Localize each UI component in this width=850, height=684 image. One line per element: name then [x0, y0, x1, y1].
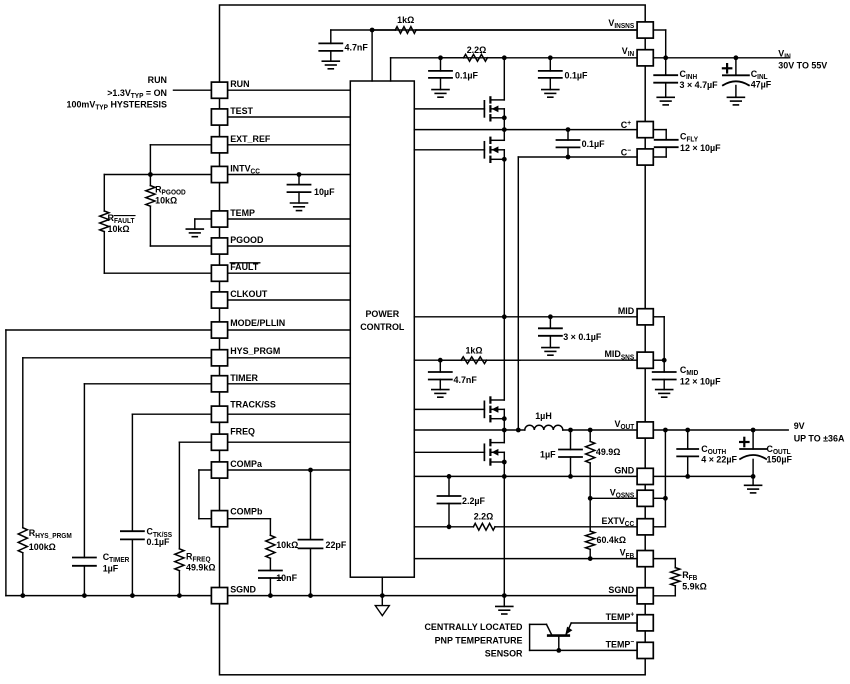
svg-text:0.1µF: 0.1µF: [582, 139, 605, 149]
svg-text:3 × 4.7µF: 3 × 4.7µF: [680, 80, 718, 90]
svg-text:POWER: POWER: [365, 309, 399, 319]
svg-text:0.1µF: 0.1µF: [455, 70, 478, 80]
svg-text:10kΩ: 10kΩ: [108, 224, 131, 234]
svg-text:FREQ: FREQ: [230, 426, 255, 436]
svg-text:12 × 10µF: 12 × 10µF: [680, 143, 721, 153]
svg-text:TEMP−: TEMP−: [606, 639, 635, 649]
svg-text:22pF: 22pF: [326, 540, 347, 550]
svg-text:COMPa: COMPa: [230, 459, 263, 469]
svg-text:CONTROL: CONTROL: [360, 322, 404, 332]
svg-text:49.9kΩ: 49.9kΩ: [186, 562, 216, 572]
svg-text:MID: MID: [618, 306, 635, 316]
svg-text:CENTRALLY LOCATED: CENTRALLY LOCATED: [424, 622, 522, 632]
svg-text:4 × 22µF: 4 × 22µF: [701, 454, 737, 464]
svg-text:FAULT: FAULT: [230, 262, 258, 272]
svg-text:HYS_PRGM: HYS_PRGM: [230, 346, 280, 356]
svg-text:PGOOD: PGOOD: [230, 235, 264, 245]
svg-text:10kΩ: 10kΩ: [276, 540, 299, 550]
svg-text:60.4kΩ: 60.4kΩ: [597, 535, 627, 545]
svg-text:0.1µF: 0.1µF: [147, 537, 170, 547]
svg-text:47µF: 47µF: [751, 79, 772, 89]
svg-text:3 × 0.1µF: 3 × 0.1µF: [563, 332, 601, 342]
svg-text:30V TO 55V: 30V TO 55V: [778, 60, 828, 70]
svg-text:TRACK/SS: TRACK/SS: [230, 399, 276, 409]
svg-text:SGND: SGND: [608, 585, 634, 595]
svg-text:4.7nF: 4.7nF: [345, 42, 369, 52]
svg-text:COMPb: COMPb: [230, 506, 263, 516]
svg-text:TEMP: TEMP: [230, 208, 255, 218]
svg-text:0.1µF: 0.1µF: [565, 70, 588, 80]
svg-text:SENSOR: SENSOR: [485, 648, 523, 658]
svg-text:GND: GND: [614, 465, 634, 475]
svg-text:CLKOUT: CLKOUT: [230, 289, 268, 299]
svg-text:RUN: RUN: [230, 79, 250, 89]
svg-text:2.2Ω: 2.2Ω: [467, 45, 487, 55]
svg-text:49.9Ω: 49.9Ω: [596, 447, 621, 457]
svg-text:1µH: 1µH: [535, 411, 552, 421]
svg-text:10µF: 10µF: [314, 187, 335, 197]
svg-text:RUN: RUN: [148, 75, 168, 85]
svg-text:1kΩ: 1kΩ: [465, 345, 483, 355]
svg-text:2.2Ω: 2.2Ω: [474, 511, 494, 521]
svg-text:EXT_REF: EXT_REF: [230, 134, 270, 144]
svg-text:12 × 10µF: 12 × 10µF: [680, 376, 721, 386]
svg-text:5.9kΩ: 5.9kΩ: [682, 581, 707, 591]
svg-text:1µF: 1µF: [103, 563, 119, 573]
svg-text:TEST: TEST: [230, 106, 253, 116]
svg-text:4.7nF: 4.7nF: [454, 375, 478, 385]
svg-text:UP TO ±36A: UP TO ±36A: [794, 433, 845, 443]
svg-text:TIMER: TIMER: [230, 373, 258, 383]
svg-text:1µF: 1µF: [540, 449, 556, 459]
svg-text:10nF: 10nF: [276, 573, 297, 583]
svg-text:SGND: SGND: [230, 584, 256, 594]
svg-text:150µF: 150µF: [767, 454, 793, 464]
svg-text:PNP TEMPERATURE: PNP TEMPERATURE: [435, 635, 523, 645]
svg-text:10kΩ: 10kΩ: [155, 195, 178, 205]
svg-text:TEMP+: TEMP+: [606, 611, 635, 621]
svg-text:2.2µF: 2.2µF: [462, 496, 485, 506]
svg-text:MODE/PLLIN: MODE/PLLIN: [230, 318, 285, 328]
svg-text:9V: 9V: [794, 421, 806, 431]
svg-text:1kΩ: 1kΩ: [397, 15, 415, 25]
svg-text:100kΩ: 100kΩ: [29, 542, 57, 552]
